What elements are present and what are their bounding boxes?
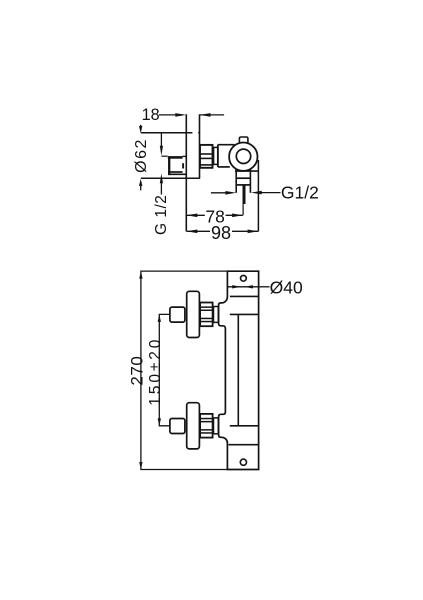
svg-text:Ø62: Ø62 (133, 138, 150, 173)
svg-text:18: 18 (142, 106, 160, 124)
svg-text:98: 98 (211, 223, 231, 243)
svg-text:G1/2: G1/2 (281, 183, 319, 203)
svg-text:270: 270 (128, 356, 147, 386)
svg-text:Ø40: Ø40 (270, 277, 303, 297)
svg-text:G 1/2: G 1/2 (153, 195, 170, 235)
svg-text:150±20: 150±20 (147, 337, 164, 406)
